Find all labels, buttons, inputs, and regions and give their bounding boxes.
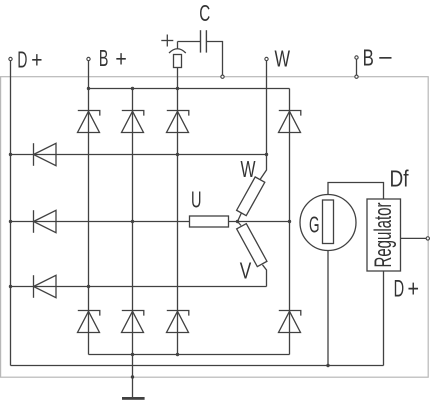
terminal W	[265, 57, 268, 60]
excitation diode row 2	[34, 210, 57, 233]
wire rotor bottom to D+ line	[327, 244, 329, 366]
svg-text:Regulator: Regulator	[370, 202, 397, 267]
regulator box	[367, 199, 401, 271]
diode bottom column 4	[279, 311, 301, 333]
diode bottom column 3	[167, 311, 189, 333]
svg-text:G: G	[309, 211, 320, 237]
terminal B-	[355, 56, 358, 59]
terminal D+ right (regulator)	[426, 237, 429, 240]
stator winding V	[237, 224, 267, 267]
svg-text:V: V	[240, 258, 252, 284]
excitation diode row 3	[34, 275, 57, 298]
svg-text:B−: B−	[363, 45, 393, 71]
wire capacitor branch: plug pin stub	[177, 42, 179, 50]
wire B- terminal drop to case	[356, 58, 358, 77]
wire D+ left vertical	[10, 59, 12, 366]
generator rotor G circle	[300, 195, 356, 251]
terminal D+	[9, 57, 12, 60]
wire B+ drop	[88, 59, 90, 89]
wire phase row 2 (U) to star point and column 4	[11, 221, 290, 223]
diode bottom column 2	[122, 311, 144, 333]
wire phase row 3 (V)	[11, 286, 267, 288]
B+ stud post	[174, 55, 182, 68]
wire rotor top to Df	[328, 183, 384, 201]
wire winding W lower connection to star	[238, 213, 242, 222]
diode top column 1	[78, 111, 100, 133]
wire rectifier column 2	[132, 89, 134, 355]
svg-text:Df: Df	[390, 166, 410, 192]
wire regulator bottom pin	[383, 271, 385, 366]
wire phase row 1 (W)	[11, 154, 267, 156]
case junction of B-	[355, 75, 358, 78]
diode bottom column 1	[78, 311, 100, 333]
terminal B+	[87, 57, 90, 60]
stator winding U	[190, 216, 229, 227]
wire rectifier column 1	[88, 89, 90, 355]
B+ plug symbol: socket arc	[169, 49, 186, 53]
wire capacitor right lead and drop to case	[206, 42, 222, 77]
rotor field winding	[323, 200, 334, 244]
wire capacitor left lead	[178, 41, 201, 43]
wire rectifier column 4 (star point diodes)	[289, 89, 291, 355]
wire rectifier column 3	[177, 68, 179, 355]
ground symbol	[122, 397, 145, 400]
wire winding V lower connection	[263, 265, 267, 287]
wire regulator right pin to D+ terminal	[401, 237, 428, 239]
diode top column 2	[122, 111, 144, 133]
diode top column 4	[279, 111, 301, 133]
wire top bus B+	[89, 88, 290, 90]
capacitor C plates	[201, 30, 207, 52]
B+ plug symbol: plus sign	[161, 35, 173, 47]
svg-text:C: C	[199, 0, 210, 26]
wire winding W upper connection	[260, 155, 267, 180]
case border (alternator housing)	[1, 77, 429, 378]
svg-text:W: W	[275, 45, 291, 71]
wire D+ bottom horizontal to regulator	[11, 365, 384, 367]
wire W terminal drop	[266, 59, 268, 155]
diode top column 3	[167, 111, 189, 133]
wire winding V upper connection to star	[238, 222, 242, 226]
svg-text:W: W	[241, 156, 256, 182]
wire ground stem	[132, 355, 134, 398]
wire bottom bus (ground plate)	[89, 354, 290, 356]
svg-text:U: U	[191, 187, 202, 213]
case junction of capacitor	[221, 75, 224, 78]
stator winding W	[237, 177, 265, 216]
excitation diode row 1	[34, 143, 57, 166]
